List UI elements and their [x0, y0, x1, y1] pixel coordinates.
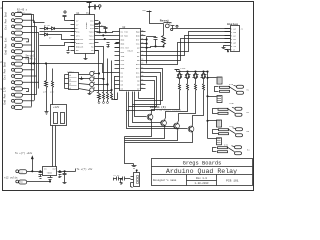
- frame zone marks: [0, 7, 2, 91]
- transistor Q1: [147, 113, 153, 122]
- ground left of U1: [67, 47, 75, 54]
- wire net from bus down left side: [45, 63, 46, 81]
- svg-text:470x4: 470x4: [67, 70, 74, 73]
- frame border: [3, 2, 254, 191]
- title text Gregs Boards: [153, 161, 239, 185]
- RN1 left pins: [65, 75, 69, 89]
- svg-text:24: 24: [141, 38, 143, 40]
- wire reg output +5v rail: [58, 169, 76, 173]
- connector pad P11: [12, 75, 37, 79]
- svg-text:25: 25: [141, 34, 143, 36]
- flyback diode D2 and LED L2 pair: [185, 72, 191, 93]
- svg-text:D1 TXD: D1 TXD: [121, 30, 129, 33]
- svg-text:C? C?: C? C?: [114, 174, 121, 177]
- connector pad GND: [16, 180, 51, 184]
- resistor R7: [52, 69, 54, 105]
- svg-text:Ext Pwr Gnd: Ext Pwr Gnd: [3, 62, 7, 80]
- svg-text:1k: 1k: [69, 88, 71, 90]
- svg-text:RXI: RXI: [121, 51, 125, 54]
- transistor Q4: [188, 125, 194, 134]
- svg-text:PCB 101: PCB 101: [226, 180, 239, 183]
- collector wire Q2: [166, 93, 188, 119]
- svg-text:22: 22: [141, 46, 143, 48]
- U1 right pins: [95, 21, 99, 51]
- flyback diode D4 and LED L4 pair: [201, 72, 207, 93]
- connector pad +12: [16, 170, 43, 174]
- wire reset to U2: [115, 46, 165, 48]
- capacitor C6 at reg input: [39, 172, 43, 179]
- svg-text:16: 16: [141, 71, 143, 73]
- connector pad P8: [12, 56, 29, 64]
- base wire Q3 from U2: [129, 77, 174, 127]
- regulator ground: [48, 176, 53, 183]
- title block: [152, 159, 253, 186]
- transistor Q2: [161, 119, 167, 128]
- +12v rail: [175, 70, 208, 73]
- connector pad P9: [12, 62, 32, 66]
- svg-text:To +(?) +12v: To +(?) +12v: [15, 152, 33, 155]
- LED LED1: [79, 71, 100, 76]
- svg-text:14: 14: [141, 79, 143, 81]
- +5v bar at U2 VCC: [115, 43, 120, 44]
- wire to U1 pin 42.8: [40, 43, 76, 46]
- svg-text:+12v: +12v: [180, 67, 186, 70]
- svg-text:18: 18: [141, 63, 143, 65]
- +12V input box: [51, 105, 67, 126]
- svg-text:21: 21: [141, 50, 143, 52]
- U2 right pin numbers: [141, 30, 143, 89]
- resistor R6: [45, 81, 48, 105]
- ground below C10: [120, 179, 123, 185]
- base wire Q1 from U2: [135, 69, 163, 117]
- wire A0 from U2 to J2: [146, 43, 231, 65]
- connector pad P2: [12, 19, 35, 23]
- svg-text:To +(?) +5v: To +(?) +5v: [77, 168, 93, 171]
- svg-text:GND+C1: GND+C1: [76, 38, 84, 41]
- svg-text:7805: 7805: [47, 172, 53, 175]
- coil feed bus +12: [207, 71, 208, 139]
- svg-text:19: 19: [141, 59, 143, 61]
- capacitor C13 reset: [147, 37, 158, 48]
- svg-text:20: 20: [141, 55, 143, 57]
- diode D7: [40, 33, 76, 40]
- svg-text:T4C4: T4C4: [89, 42, 95, 45]
- relay K1 coil: [207, 77, 222, 84]
- ground left of +12V box: [45, 105, 49, 115]
- svg-text:K?B: K?B: [230, 102, 235, 105]
- regulator U6 7805: [43, 167, 57, 176]
- svg-text:1-20-2013: 1-20-2013: [194, 182, 208, 185]
- LED LED3: [79, 82, 109, 87]
- base wire Q4 from U2: [127, 81, 188, 129]
- wire A2 from U2 to J2: [146, 36, 231, 56]
- LED LED2: [79, 77, 105, 82]
- collector wire Q1: [152, 93, 180, 113]
- base resistor R4: [111, 61, 118, 100]
- svg-text:1k: 1k: [69, 84, 71, 86]
- pushbutton SW1: [164, 22, 173, 31]
- U2 right pins: [141, 32, 146, 89]
- svg-text:7x1: 7x1: [86, 12, 91, 15]
- svg-text:M328: M328: [128, 50, 134, 53]
- base resistor R2: [103, 55, 105, 104]
- base resistor R3: [107, 59, 109, 104]
- node label To +12v: [15, 152, 33, 155]
- svg-text:K?A: K?A: [229, 83, 234, 86]
- connector pad P7: [12, 50, 35, 54]
- connector pad P12: [12, 81, 40, 85]
- svg-text:+12V: +12V: [53, 106, 60, 109]
- svg-text:23: 23: [141, 42, 143, 44]
- 2N3904 note: [150, 105, 182, 112]
- wire U2 RXD to U1: [104, 35, 115, 37]
- svg-text:ATMEG: ATMEG: [85, 22, 88, 29]
- node label To +5v: [77, 168, 93, 171]
- J2 label Analog: [227, 22, 244, 52]
- wire row: [40, 31, 76, 33]
- svg-text:1k: 1k: [69, 75, 71, 77]
- relay K2 coil: [208, 96, 223, 103]
- wires +12V box down to regulator rail: [53, 126, 56, 167]
- capacitor C1 C2 top: [90, 5, 102, 10]
- svg-text:T4C1: T4C1: [89, 31, 95, 34]
- relay K4 coil: [208, 138, 222, 145]
- svg-text:Gnd Pwr I/O: Gnd Pwr I/O: [3, 87, 7, 105]
- transistor Q3: [174, 122, 180, 131]
- wire A3 from U2 to J2: [146, 32, 231, 52]
- svg-text:Analog: Analog: [227, 22, 238, 26]
- label Serial RJ-45: [26, 55, 37, 61]
- analog header J2: [225, 26, 240, 52]
- collector wire Q3: [179, 93, 196, 122]
- +5v feed to SW1: [147, 11, 164, 24]
- U1 left pins: [71, 21, 75, 51]
- svg-text:K?C: K?C: [230, 125, 235, 128]
- flyback diode D3 and LED L3 pair: [193, 72, 199, 93]
- svg-text:GND+C2: GND+C2: [76, 42, 84, 45]
- svg-text:17: 17: [141, 67, 143, 69]
- capacitor C7 at reg output: [59, 172, 62, 178]
- svg-text:Ext Pwr Gnd: Ext Pwr Gnd: [4, 12, 8, 30]
- capacitors C10 C11 bottom: [114, 177, 131, 181]
- svg-text:13: 13: [141, 83, 143, 85]
- relay K4 contacts: [213, 146, 242, 155]
- base wire Q2 from U2: [133, 73, 161, 123]
- ground below LEDs: [88, 92, 92, 96]
- left margin rotated net labels: [3, 12, 8, 105]
- MCU U2: [120, 29, 141, 91]
- relay K3 coil: [208, 120, 222, 127]
- connector pad P5: [12, 37, 29, 42]
- svg-text:12: 12: [141, 87, 143, 89]
- base resistor R1: [98, 53, 101, 104]
- U2 ground bus right: [146, 37, 148, 64]
- svg-text:15: 15: [141, 75, 143, 77]
- wire U2 TXD to U1: [105, 39, 115, 41]
- IC U1: [75, 15, 95, 54]
- wire arrow up from +12 input: [31, 156, 33, 171]
- VCC symbol above U1: [87, 3, 92, 15]
- U1 pin labels: [76, 20, 94, 53]
- svg-text:T4C3: T4C3: [89, 38, 95, 41]
- wire U2 left to LED hook: [115, 77, 118, 100]
- svg-text:K?D: K?D: [224, 143, 229, 146]
- U1 ground bottom: [84, 54, 88, 62]
- svg-text:1k: 1k: [69, 79, 71, 81]
- svg-text:Designer's name: Designer's name: [153, 178, 177, 182]
- connector pad P1: [12, 13, 32, 17]
- svg-text:Rev 1.0: Rev 1.0: [196, 177, 207, 180]
- capacitor C5 near U1 top-left: [63, 11, 75, 21]
- connector pad P4: [12, 31, 40, 35]
- flyback diode D1 and LED L1 pair: [177, 72, 183, 93]
- U2 pin labels: [121, 30, 141, 90]
- capacitor C9 right of U1: [107, 43, 110, 48]
- LED LED4: [79, 88, 113, 93]
- relay K3 contacts: [213, 128, 243, 137]
- svg-text:Gnd Pwr Ext: Gnd Pwr Ext: [4, 37, 8, 55]
- connector pad P3: [12, 25, 37, 29]
- connector pad P14: [12, 93, 37, 97]
- wire A1 from U2 to J2: [146, 39, 231, 61]
- input protection wires: [40, 28, 45, 30]
- diode D5: [45, 27, 52, 30]
- U2 bottom pin drops: [127, 92, 155, 111]
- svg-text:T4C2: T4C2: [89, 34, 95, 37]
- U2 left pins: [115, 32, 120, 89]
- svg-text:D0 RXD: D0 RXD: [121, 34, 129, 37]
- svg-text:GND+C3: GND+C3: [76, 46, 84, 49]
- wire +5 to J2 row: [171, 25, 231, 28]
- stubs from U1 right pins into resistor columns: [95, 35, 106, 55]
- ground for emitters: [132, 164, 137, 169]
- svg-text:+12 volts: +12 volts: [4, 176, 18, 179]
- svg-text:RTS RST: RTS RST: [121, 47, 130, 50]
- connector pad P6: [12, 44, 32, 48]
- emitter wires to ground: [125, 122, 193, 164]
- relay K1 contacts: [215, 85, 244, 94]
- svg-text:Arduino Quad Relay: Arduino Quad Relay: [166, 168, 237, 175]
- resistor R5: [162, 24, 166, 47]
- svg-text:26: 26: [141, 30, 143, 32]
- connector pad P16: [12, 106, 32, 110]
- J2 ground: [222, 46, 229, 53]
- svg-text:D? D?: D? D?: [44, 24, 51, 27]
- diode D6: [52, 27, 76, 30]
- svg-text:+12: +12: [19, 170, 22, 173]
- resistor network RN1: [69, 73, 79, 90]
- wire: top-left loop: [23, 15, 45, 23]
- svg-text:PWR+-↓: PWR+-↓: [17, 11, 26, 14]
- relay K2 contacts: [213, 107, 243, 116]
- svg-text:Gregs Boards: Gregs Boards: [183, 161, 222, 167]
- connector pad P10: [12, 68, 35, 72]
- reset cap circuit right of U1: [95, 22, 115, 33]
- connector pad P13: [12, 87, 29, 92]
- Reset label: [160, 18, 169, 22]
- wire: serial tap to U2: [29, 63, 115, 73]
- collector wire Q4: [193, 93, 204, 125]
- ground right of RN1: [80, 77, 84, 81]
- label RJ-45 top: [17, 9, 28, 15]
- label +12 volts: [4, 176, 18, 179]
- wires: left vertical buses: [32, 15, 39, 107]
- connector pad P15: [12, 99, 35, 103]
- bottom connector CN1: [131, 170, 140, 188]
- capacitor C8 and ground on +5 rail: [63, 172, 67, 185]
